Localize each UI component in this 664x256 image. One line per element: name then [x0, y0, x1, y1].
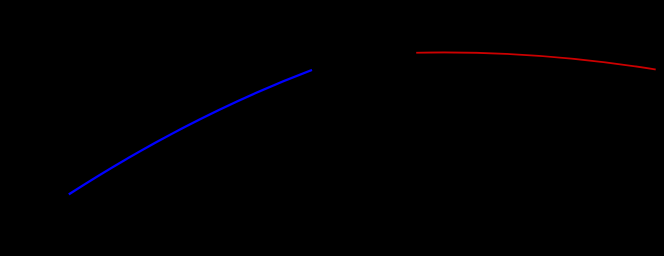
blue ascending trajectory curve	[69, 70, 312, 194]
red descending trajectory curve	[416, 52, 656, 69]
